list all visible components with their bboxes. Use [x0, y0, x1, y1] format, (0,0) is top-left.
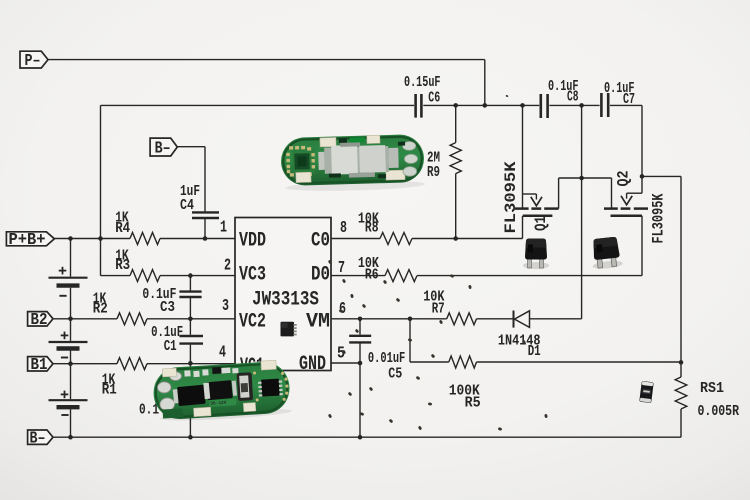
svg-text:VC3: VC3	[239, 263, 266, 286]
svg-text:7: 7	[338, 259, 345, 278]
svg-text:R3: R3	[115, 257, 130, 274]
svg-text:B1: B1	[31, 355, 48, 374]
svg-text:GND: GND	[299, 353, 326, 376]
svg-text:4: 4	[219, 343, 226, 362]
svg-text:VM: VM	[306, 310, 330, 333]
svg-text:R9: R9	[427, 164, 440, 181]
svg-text:2: 2	[224, 256, 231, 275]
svg-text:5: 5	[337, 344, 345, 363]
svg-text:RS1: RS1	[700, 380, 724, 397]
svg-text:C0: C0	[311, 229, 330, 252]
svg-text:C4: C4	[180, 197, 194, 214]
svg-text:D1: D1	[528, 343, 541, 360]
svg-text:FL3095K: FL3095K	[502, 161, 520, 233]
svg-text:VDD: VDD	[239, 229, 266, 252]
svg-text:C8: C8	[567, 89, 579, 106]
svg-text:R6: R6	[365, 267, 379, 284]
svg-text:6: 6	[339, 300, 346, 319]
svg-text:0.005R: 0.005R	[698, 403, 740, 420]
svg-text:P–: P–	[25, 51, 41, 70]
svg-text:C7: C7	[623, 91, 635, 108]
svg-text:Q1: Q1	[532, 216, 550, 231]
svg-text:Q2: Q2	[615, 171, 633, 187]
svg-text:C5: C5	[388, 366, 402, 383]
svg-text:R8: R8	[365, 219, 379, 236]
svg-text:8: 8	[340, 219, 347, 238]
svg-text:B–: B–	[30, 428, 46, 447]
svg-text:C3: C3	[160, 299, 175, 316]
svg-text:FL3095K: FL3095K	[649, 193, 667, 243]
svg-text:C6: C6	[428, 90, 440, 107]
svg-text:3: 3	[222, 297, 229, 316]
svg-text:R4: R4	[115, 220, 130, 237]
svg-text:B–: B–	[155, 138, 171, 157]
svg-text:VC2: VC2	[239, 310, 266, 333]
svg-text:B2: B2	[31, 310, 48, 329]
svg-text:P+B+: P+B+	[9, 230, 46, 249]
svg-text:C1: C1	[164, 338, 177, 355]
svg-text:R2: R2	[93, 300, 108, 317]
svg-text:JW3313S: JW3313S	[252, 289, 319, 312]
svg-text:1: 1	[220, 219, 227, 238]
svg-text:0.15uF: 0.15uF	[404, 74, 441, 91]
svg-text:D0: D0	[311, 263, 330, 286]
svg-text:R7: R7	[432, 301, 445, 318]
svg-text:R5: R5	[465, 394, 481, 411]
svg-text:R1: R1	[102, 381, 117, 398]
svg-text:3S-12V: 3S-12V	[210, 400, 227, 407]
